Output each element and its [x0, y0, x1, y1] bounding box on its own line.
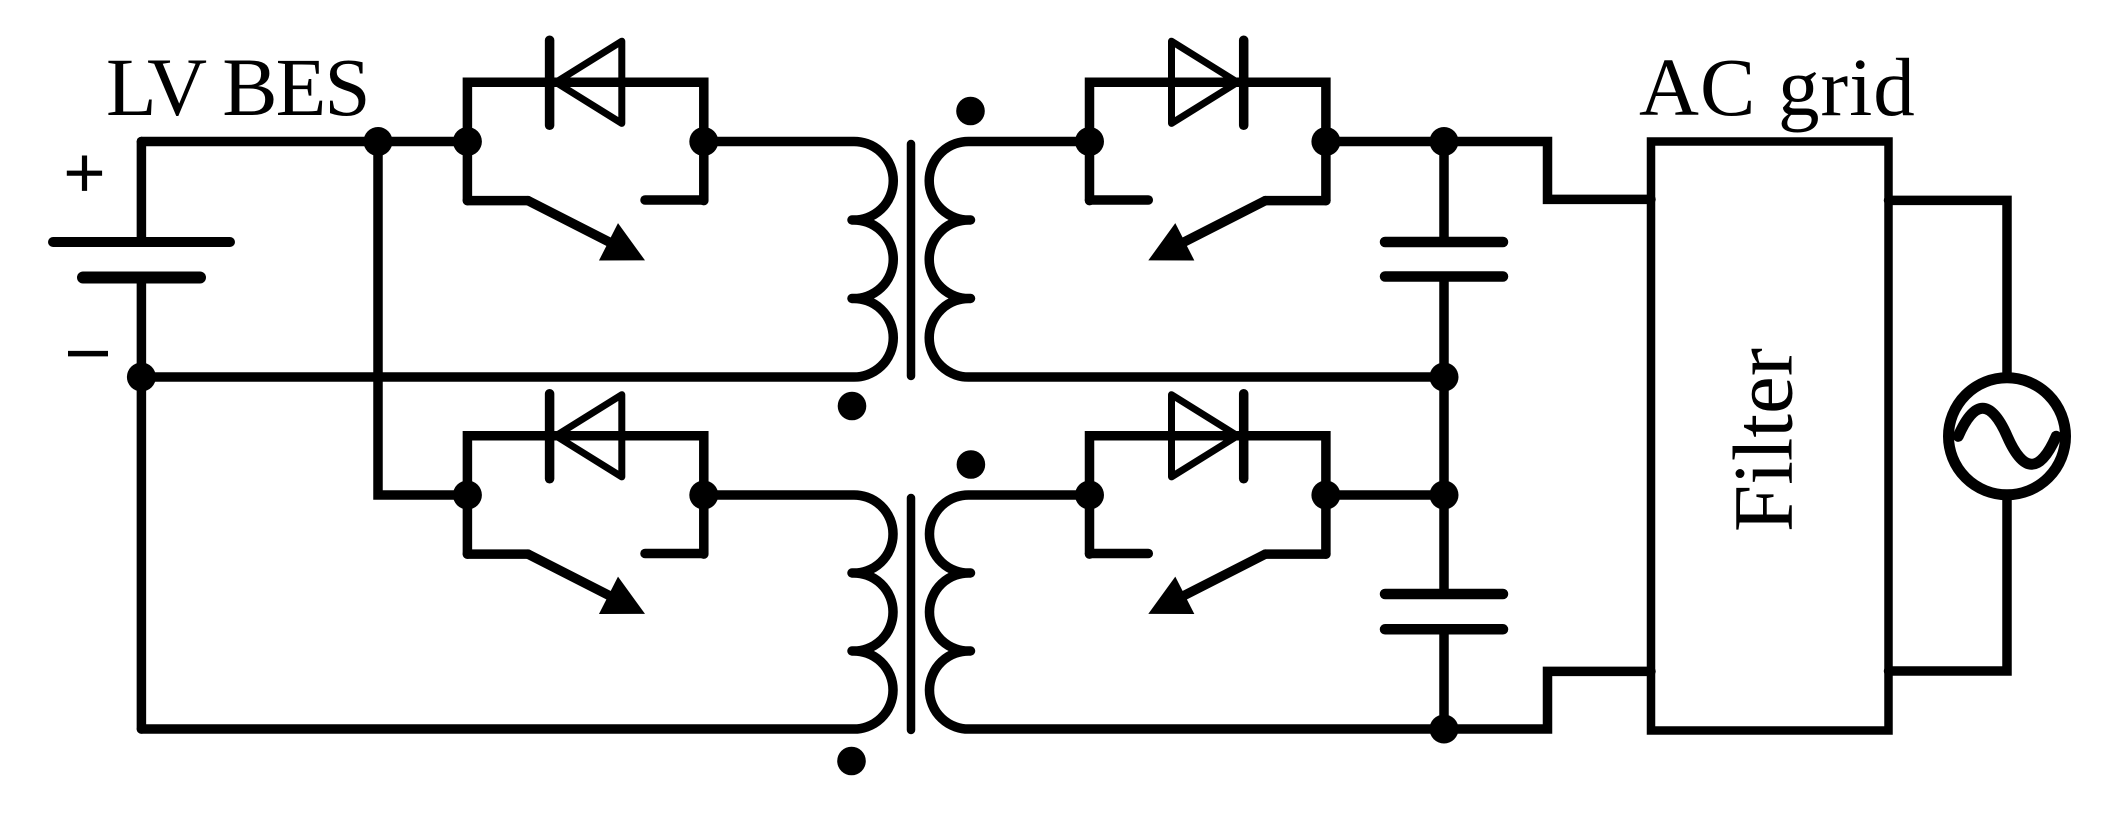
svg-text:LV BES: LV BES: [106, 41, 369, 133]
transformer T2 core: [907, 498, 916, 730]
wire capacitor rail top segment: [1439, 142, 1449, 243]
node capacitor mid junction: [1430, 363, 1459, 392]
switch S2: [453, 394, 718, 614]
node top rail junction at battery branch: [364, 127, 393, 156]
capacitor C2 top plate: [1385, 589, 1503, 600]
AC source V1 circle: [1949, 378, 2066, 495]
svg-text:AC grid: AC grid: [1639, 41, 1916, 133]
capacitor C1 top plate: [1385, 237, 1503, 248]
svg-text:Filter: Filter: [1717, 348, 1811, 532]
wire bottom-right rail stepping up into filter: [1444, 671, 1651, 729]
label battery plus sign: [67, 156, 102, 191]
transformer T1 secondary winding with leads: [929, 141, 1444, 377]
switch S1: [453, 40, 718, 260]
battery BT1 positive plate: [53, 237, 230, 247]
polarity dot T2 primary: [837, 747, 866, 776]
node battery negative junction: [127, 363, 156, 392]
wire battery negative lead down left side: [137, 278, 147, 730]
AC source V1 sine wave: [1958, 408, 2056, 464]
wire S4 row to capacitor rail: [1324, 490, 1444, 500]
polarity dot T2 secondary: [957, 450, 986, 479]
transformer T1 core: [907, 144, 916, 376]
transformer T2 primary winding with leads: [141, 495, 893, 729]
polarity dot T1 primary: [838, 392, 867, 421]
wire capacitor rail middle segment: [1439, 277, 1449, 595]
node S4 row capacitor junction: [1430, 481, 1459, 510]
switch S4: [1075, 394, 1340, 614]
label battery minus sign: [68, 351, 108, 357]
wire battery positive lead: [137, 142, 147, 243]
wire capacitor rail bottom segment: [1439, 629, 1449, 729]
wire top-right rail stepping down into filter: [1324, 142, 1651, 200]
capacitor C2 bottom plate: [1385, 624, 1503, 635]
node capacitor rail top junction: [1430, 127, 1459, 156]
polarity dot T1 secondary: [956, 97, 985, 126]
wire top rail from battery to S1: [141, 137, 467, 147]
filter box: [1651, 142, 1889, 731]
transformer T1 primary winding with leads: [141, 141, 893, 377]
transformer T2 secondary winding with leads: [929, 495, 1444, 729]
wire from top rail down to S2 row: [378, 142, 467, 496]
wire filter to AC source top: [1889, 200, 2008, 378]
node capacitor rail bottom junction: [1430, 715, 1459, 744]
wire filter to AC source bottom: [1889, 494, 2008, 671]
switch S3: [1075, 40, 1340, 260]
battery BT1 negative plate: [83, 272, 200, 284]
capacitor C1 bottom plate: [1385, 271, 1503, 282]
